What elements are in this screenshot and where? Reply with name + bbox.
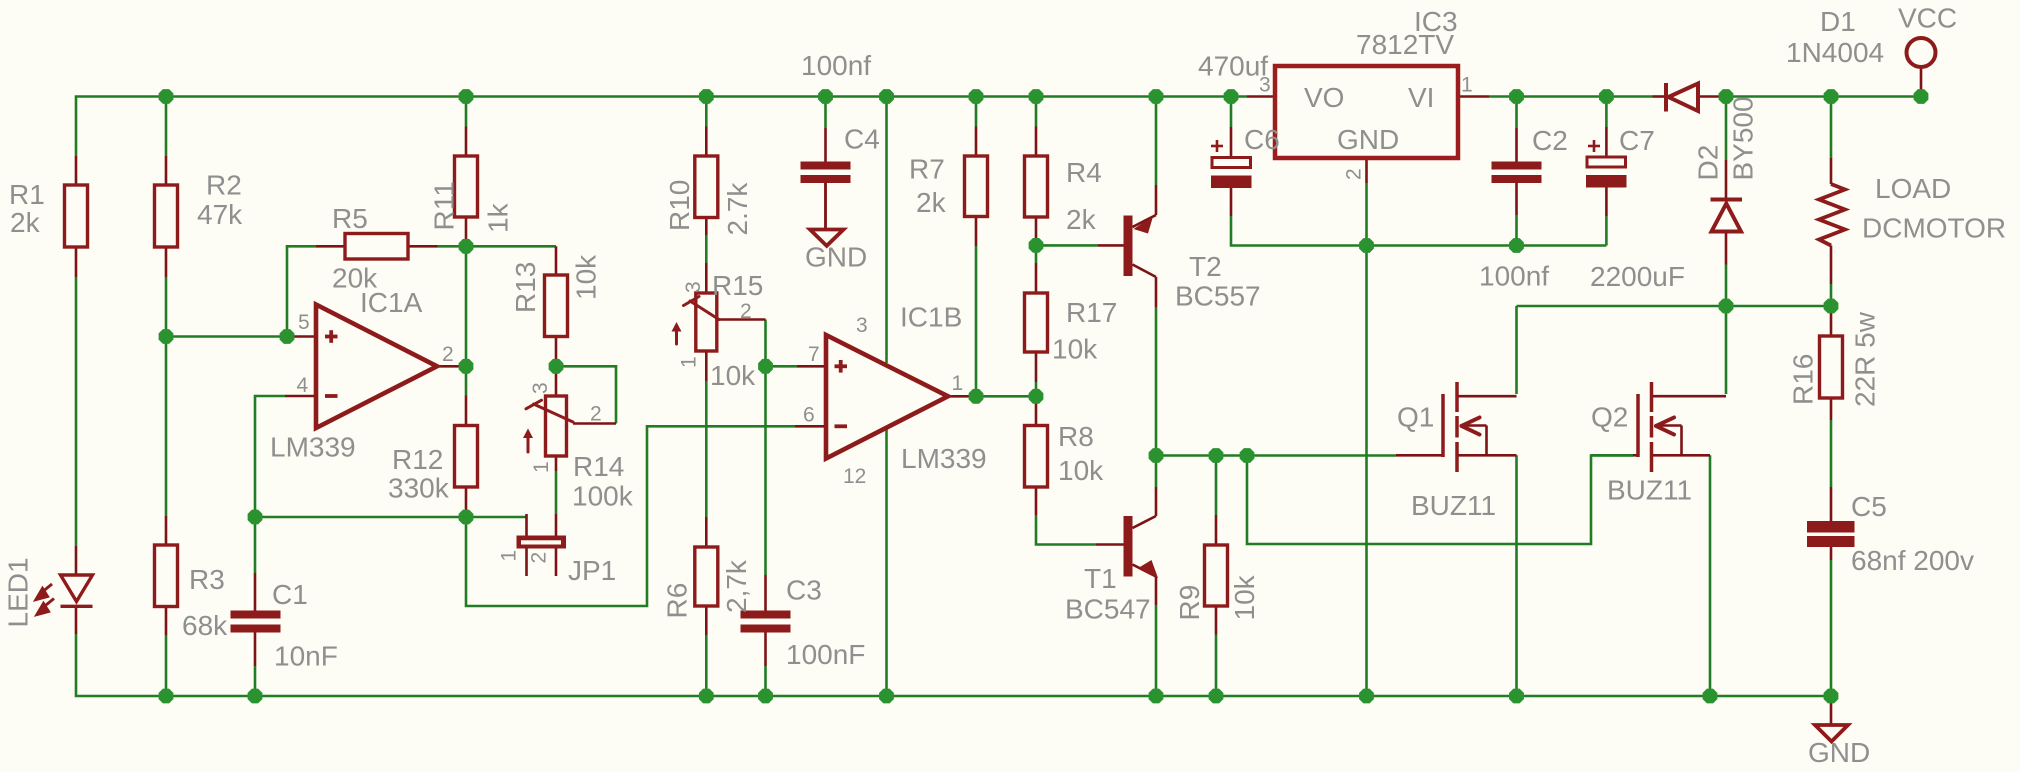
svg-text:68k: 68k bbox=[182, 610, 228, 641]
polarized capacitor C6 bbox=[1211, 140, 1252, 188]
gnd symbol C4 bbox=[810, 230, 844, 246]
pin Q1 gate bbox=[1396, 454, 1443, 457]
resistor R17 bbox=[1025, 293, 1048, 352]
wire R2 to R3 column bbox=[165, 277, 168, 516]
junction top rail x C7 bbox=[1599, 89, 1614, 104]
pin C1 bottom bbox=[254, 633, 257, 667]
svg-text:10k: 10k bbox=[710, 360, 756, 391]
svg-text:C5: C5 bbox=[1851, 491, 1887, 522]
pin R16 top bbox=[1830, 306, 1833, 336]
pin C2 top bbox=[1515, 128, 1518, 162]
pin C6 bottom bbox=[1230, 188, 1233, 216]
svg-text:1: 1 bbox=[678, 356, 701, 368]
wire IC3 gnd pin down bbox=[1365, 183, 1368, 696]
resistor R13 bbox=[545, 275, 568, 337]
pin R9 top bbox=[1215, 515, 1218, 545]
svg-text:LM339: LM339 bbox=[270, 432, 356, 463]
wire T2 collector down bbox=[1155, 307, 1158, 456]
wire drain row bbox=[1517, 305, 1832, 308]
wire opamp pin4 loop bbox=[255, 396, 285, 517]
resistor R3 bbox=[155, 545, 178, 607]
resistor R12 bbox=[455, 426, 478, 488]
wire R15 pin1 to R6 bbox=[705, 381, 708, 517]
resistor R7 bbox=[965, 156, 988, 217]
svg-text:C1: C1 bbox=[272, 579, 308, 610]
svg-text:T2: T2 bbox=[1189, 251, 1222, 282]
svg-text:3: 3 bbox=[856, 314, 868, 337]
pin R14 wiper stub bbox=[573, 422, 616, 425]
junction node IC1A out / R12 bbox=[459, 359, 474, 374]
svg-text:T1: T1 bbox=[1084, 563, 1117, 594]
junction node IC1B out / R7 bbox=[969, 389, 984, 404]
wire R11 bottom to R12 bbox=[465, 246, 468, 395]
pin T1 collector bbox=[1155, 487, 1158, 516]
resistor R11 bbox=[455, 156, 478, 217]
op-amp IC1A bbox=[316, 305, 437, 429]
pin R2 bottom bbox=[165, 247, 168, 277]
wire C6 top bbox=[1230, 97, 1233, 128]
svg-text:C2: C2 bbox=[1532, 125, 1568, 156]
junction node C1 / IC1A- bbox=[248, 510, 263, 525]
svg-text:R5: R5 bbox=[332, 203, 368, 234]
vcc symbol bbox=[1907, 38, 1936, 67]
junction bottom rail x Q1 source bbox=[1509, 689, 1524, 704]
svg-text:R12: R12 bbox=[392, 444, 443, 475]
pin C7 top bbox=[1605, 127, 1608, 157]
resistor R10 bbox=[695, 156, 718, 218]
svg-text:2k: 2k bbox=[1066, 204, 1097, 235]
LED LED1 bbox=[61, 575, 93, 606]
svg-text:10k: 10k bbox=[1229, 574, 1260, 620]
pin R17 bottom bbox=[1035, 352, 1038, 382]
svg-text:Q2: Q2 bbox=[1591, 402, 1628, 433]
svg-text:GND: GND bbox=[805, 242, 867, 273]
wire R7 top bbox=[975, 97, 978, 127]
wire C2 bottom bbox=[1515, 215, 1518, 246]
capacitor C2 bbox=[1492, 162, 1542, 184]
wire R2 column top bbox=[165, 97, 168, 157]
wire feedback down right to IC1B pin6 bbox=[466, 426, 795, 606]
wire Q2 drain up bbox=[1725, 308, 1728, 394]
pin R4 bottom bbox=[1035, 217, 1038, 245]
trimmer R14 wiper bbox=[526, 400, 573, 452]
pin R17 top bbox=[1035, 263, 1038, 293]
junction node T2/T1 collectors / gate net bbox=[1149, 448, 1164, 463]
pin D1 right bbox=[1698, 95, 1726, 98]
junction node R17/R8/IC1B out bbox=[1029, 389, 1044, 404]
svg-text:100nF: 100nF bbox=[786, 639, 865, 670]
svg-text:VCC: VCC bbox=[1898, 3, 1957, 34]
svg-text:2: 2 bbox=[1343, 168, 1366, 180]
junction top rail x C4 bbox=[818, 89, 833, 104]
svg-text:12: 12 bbox=[843, 465, 866, 488]
svg-text:R1: R1 bbox=[9, 179, 45, 210]
trimmer R15 wiper bbox=[677, 297, 720, 345]
svg-text:R9: R9 bbox=[1174, 585, 1205, 621]
pin LED1 bottom bbox=[75, 607, 78, 635]
wire R3 bottom bbox=[165, 635, 168, 696]
wire C5 bottom bbox=[1830, 560, 1833, 696]
pin T1 emitter bbox=[1155, 577, 1158, 606]
svg-text:C7: C7 bbox=[1619, 125, 1655, 156]
svg-text:IC1B: IC1B bbox=[900, 302, 962, 333]
svg-text:470uf: 470uf bbox=[1198, 51, 1268, 82]
pin JP1 1 upper bbox=[525, 514, 528, 536]
junction top rail x R4 bbox=[1029, 89, 1044, 104]
svg-text:3: 3 bbox=[682, 281, 705, 293]
svg-text:6: 6 bbox=[803, 404, 815, 427]
junction bottom rail x R6 bbox=[699, 689, 714, 704]
pin LOAD top bbox=[1830, 158, 1833, 184]
svg-text:BUZ11: BUZ11 bbox=[1411, 490, 1496, 521]
svg-text:1: 1 bbox=[530, 461, 553, 473]
junction node IC1A+ / R5 bbox=[280, 329, 295, 344]
mosfet Q2 BUZ11 bbox=[1638, 382, 1652, 472]
svg-text:DCMOTOR: DCMOTOR bbox=[1862, 213, 2006, 244]
junction top rail x C2 bbox=[1509, 89, 1524, 104]
pin T2 base bbox=[1098, 244, 1124, 247]
svg-text:2: 2 bbox=[590, 403, 602, 426]
pin D2 top bbox=[1725, 160, 1728, 200]
resistor R1 bbox=[65, 185, 88, 247]
svg-text:2200uF: 2200uF bbox=[1590, 261, 1685, 292]
pin IC1B output 1 bbox=[948, 395, 976, 398]
wire Q2 gate stub green bbox=[1591, 454, 1633, 457]
junction gate net branch to Q2 bbox=[1240, 448, 1255, 463]
svg-text:2: 2 bbox=[442, 343, 454, 366]
pin R14 bottom bbox=[555, 456, 558, 471]
polarized capacitor C7 bbox=[1586, 140, 1627, 188]
wire D2 bottom bbox=[1725, 265, 1728, 307]
load resistor zigzag bbox=[1819, 184, 1845, 246]
pin R5 right bbox=[408, 245, 438, 248]
transistor T1 BC547 bbox=[1124, 516, 1159, 578]
junction gnd row x IC3 GND bbox=[1359, 238, 1374, 253]
svg-text:1: 1 bbox=[498, 550, 521, 562]
capacitor C1 bbox=[231, 611, 281, 633]
svg-text:2k: 2k bbox=[916, 187, 947, 218]
svg-text:R10: R10 bbox=[664, 180, 695, 231]
svg-text:7: 7 bbox=[808, 343, 820, 366]
pin C2 bottom bbox=[1515, 183, 1518, 215]
wire top rail left segment bbox=[76, 97, 1247, 157]
wire LOAD top bbox=[1830, 97, 1833, 159]
junction top rail x C6 bbox=[1224, 89, 1239, 104]
svg-text:BY500: BY500 bbox=[1728, 96, 1759, 180]
wire R14 wiper loop bbox=[556, 366, 616, 423]
pin C5 top bbox=[1830, 487, 1833, 521]
resistor R4 bbox=[1025, 156, 1048, 217]
svg-text:GND: GND bbox=[1808, 737, 1870, 768]
wire top rail after IC3 bbox=[1489, 95, 1653, 98]
junction gnd row x C2 bbox=[1509, 238, 1524, 253]
svg-text:JP1: JP1 bbox=[568, 555, 616, 586]
wire top rail after D1 bbox=[1726, 95, 1921, 98]
wire R16 to C5 bbox=[1830, 420, 1833, 487]
pin T2 emitter bbox=[1155, 185, 1158, 215]
pin R15 bottom bbox=[705, 351, 708, 381]
pin R7 bottom bbox=[975, 217, 978, 247]
junction bottom rail x C3 bbox=[758, 689, 773, 704]
wire IC1B output to R8 junction bbox=[976, 395, 1036, 398]
junction top rail x D2 bbox=[1719, 89, 1734, 104]
wire bottom rail bbox=[76, 634, 1831, 696]
svg-text:R2: R2 bbox=[206, 170, 242, 201]
wire T2 base bbox=[1036, 244, 1098, 247]
resistor R8 bbox=[1025, 426, 1048, 488]
capacitor C3 bbox=[741, 611, 791, 633]
svg-text:VI: VI bbox=[1408, 82, 1434, 113]
pin R11 top bbox=[465, 127, 468, 157]
wire R14 bottom to JP1 pin2 bbox=[555, 471, 558, 514]
pin R6 bottom bbox=[705, 606, 708, 635]
svg-text:R7: R7 bbox=[909, 154, 945, 185]
resistor R9 bbox=[1205, 545, 1228, 606]
junction bottom rail x T1 emitter bbox=[1149, 689, 1164, 704]
svg-text:2.7k: 2.7k bbox=[722, 182, 753, 236]
wire LOAD bottom to row bbox=[1830, 284, 1833, 306]
pin R10 bottom bbox=[705, 218, 708, 236]
svg-text:1: 1 bbox=[1461, 74, 1473, 97]
wire C1 top bbox=[254, 517, 257, 573]
pin JP1 1 lower bbox=[525, 549, 528, 577]
svg-text:D2: D2 bbox=[1693, 145, 1724, 181]
junction top rail x R2 bbox=[159, 89, 174, 104]
wire R1 column lower bbox=[75, 277, 78, 546]
pin Q2 gate bbox=[1633, 454, 1638, 457]
pin C3 bottom bbox=[764, 633, 767, 667]
mosfet Q1 BUZ11 bbox=[1443, 382, 1457, 472]
junction node R15 wiper / C3 / IC1B+ bbox=[758, 359, 773, 374]
wire Q1 drain up bbox=[1515, 306, 1518, 394]
pin R8 bottom bbox=[1035, 487, 1038, 515]
svg-text:330k: 330k bbox=[388, 473, 450, 504]
svg-text:R13: R13 bbox=[510, 262, 541, 313]
wire D2 top bbox=[1725, 97, 1728, 161]
pin IC1A output 2 bbox=[437, 365, 466, 368]
wire R5 left loop bbox=[287, 246, 316, 336]
pin R15 top bbox=[705, 263, 708, 293]
wire R11 top bbox=[465, 97, 468, 127]
pin C4 GND stub bbox=[824, 183, 827, 230]
svg-text:68nf 200v: 68nf 200v bbox=[1851, 545, 1974, 576]
svg-text:IC1A: IC1A bbox=[360, 287, 423, 318]
wire C2 top bbox=[1515, 97, 1518, 129]
pin R13 top bbox=[555, 246, 558, 275]
svg-text:47k: 47k bbox=[197, 199, 243, 230]
svg-text:1k: 1k bbox=[483, 202, 514, 233]
pin IC3 3 bbox=[1247, 95, 1275, 98]
svg-text:R6: R6 bbox=[662, 583, 693, 619]
wire C7 gnd corner bbox=[1605, 216, 1608, 246]
junction drain row x R16/LOAD bbox=[1824, 299, 1839, 314]
pin R16 bottom bbox=[1830, 398, 1833, 420]
svg-text:5: 5 bbox=[298, 311, 310, 334]
wire T1 collector up bbox=[1155, 456, 1158, 488]
svg-text:Q1: Q1 bbox=[1397, 402, 1434, 433]
wire gate row bbox=[1156, 454, 1396, 457]
pin R8 top bbox=[1035, 396, 1038, 425]
capacitor C4 bbox=[801, 162, 851, 184]
wire R10 top bbox=[705, 97, 708, 127]
LED1 arrows bbox=[36, 584, 54, 615]
transistor T2 BC557 bbox=[1124, 215, 1157, 277]
junction drain row x D2/Q2 drain bbox=[1719, 299, 1734, 314]
pin R1 bottom bbox=[75, 247, 78, 277]
junction node R4/R17/T2 base bbox=[1029, 238, 1044, 253]
svg-text:GND: GND bbox=[1337, 124, 1399, 155]
svg-text:LED1: LED1 bbox=[3, 557, 34, 627]
pin JP1 2 lower bbox=[555, 549, 558, 577]
svg-text:100nf: 100nf bbox=[801, 50, 871, 81]
resistor R5 bbox=[345, 234, 408, 260]
wire R5 row to R13 bbox=[466, 245, 556, 248]
wire R4 junction to R17 bbox=[1035, 245, 1038, 263]
wire R9 top bbox=[1215, 456, 1218, 516]
junction node R13/R14/wiper bbox=[549, 359, 564, 374]
junction bottom rail x GND symbol bbox=[1824, 689, 1839, 704]
pin VCC stub bbox=[1920, 67, 1923, 97]
pin IC3 1 bbox=[1458, 95, 1489, 98]
junction bottom rail x C1 bbox=[248, 689, 263, 704]
pin LED1 top bbox=[75, 546, 78, 575]
svg-text:LOAD: LOAD bbox=[1875, 173, 1951, 204]
svg-text:22R 5w: 22R 5w bbox=[1850, 311, 1881, 407]
svg-text:LM339: LM339 bbox=[901, 443, 987, 474]
junction top rail x LOAD bbox=[1824, 89, 1839, 104]
junction top rail x R11 bbox=[459, 89, 474, 104]
pin R12 bottom bbox=[465, 487, 468, 517]
pin T1 base bbox=[1096, 543, 1124, 546]
pin R9 bottom bbox=[1215, 606, 1218, 635]
potentiometer R14 body bbox=[546, 396, 567, 456]
diode D1 bbox=[1666, 83, 1698, 112]
junction gate net x R9 bbox=[1209, 448, 1224, 463]
svg-text:1: 1 bbox=[952, 372, 964, 395]
wire R9 bottom bbox=[1215, 635, 1218, 697]
svg-text:C3: C3 bbox=[786, 575, 822, 606]
resistor R16 bbox=[1820, 336, 1843, 398]
wire JP1 pin1 bbox=[466, 516, 526, 519]
junction top rail x R10 bbox=[699, 89, 714, 104]
svg-text:BUZ11: BUZ11 bbox=[1607, 475, 1692, 506]
pin R12 top bbox=[465, 396, 468, 426]
pin C3 top bbox=[764, 575, 767, 611]
wire wiper junction to IC1B pin7 bbox=[766, 365, 798, 368]
pin C7 bottom bbox=[1605, 188, 1608, 217]
svg-text:R11: R11 bbox=[429, 181, 460, 230]
wire R7 bottom to IC1B output bbox=[975, 246, 978, 396]
wire T1 emitter bottom bbox=[1155, 605, 1158, 696]
pin C4 top bbox=[824, 128, 827, 162]
potentiometer R15 body bbox=[696, 293, 717, 351]
svg-text:10k: 10k bbox=[1052, 334, 1098, 365]
wire C3 top bbox=[764, 366, 767, 575]
wire R10 to R15 gap bbox=[705, 235, 708, 263]
wire R15 wiper to junction bbox=[764, 320, 767, 367]
pin R7 top bbox=[975, 127, 978, 157]
wire T2 emitter top bbox=[1155, 97, 1158, 186]
svg-text:R3: R3 bbox=[189, 564, 225, 595]
junction bottom rail x LM339 pin12 net bbox=[879, 689, 894, 704]
svg-text:R14: R14 bbox=[573, 451, 624, 482]
svg-text:2: 2 bbox=[528, 552, 551, 564]
svg-text:10nF: 10nF bbox=[274, 641, 338, 672]
pin C1 top bbox=[254, 573, 257, 611]
junction top rail x T2 emitter bbox=[1149, 89, 1164, 104]
pin R14 top bbox=[555, 366, 558, 396]
wire C4 top bbox=[824, 97, 827, 129]
svg-text:2,7k: 2,7k bbox=[721, 559, 752, 613]
pin IC1B minus 6 bbox=[795, 425, 826, 428]
svg-text:10k: 10k bbox=[1058, 455, 1104, 486]
svg-text:2k: 2k bbox=[10, 207, 41, 238]
gnd symbol bottom bbox=[1815, 725, 1848, 742]
pin GND symbol stub bbox=[1830, 696, 1833, 725]
junction node R2/R3 to IC1A+ bbox=[159, 329, 174, 344]
capacitor C5 bbox=[1807, 521, 1855, 547]
svg-text:R4: R4 bbox=[1066, 157, 1102, 188]
wire C1 bottom bbox=[254, 666, 257, 696]
wire C3 bottom bbox=[764, 666, 767, 696]
pin T2 collector bbox=[1155, 277, 1158, 307]
pin D2 bottom bbox=[1725, 232, 1728, 265]
svg-text:10k: 10k bbox=[571, 254, 602, 300]
svg-text:BC557: BC557 bbox=[1175, 281, 1261, 312]
wire LM339 power pin3 column bbox=[885, 97, 888, 364]
junction top rail x VCC bbox=[1914, 89, 1929, 104]
wire R8 bottom to T1 base bbox=[1036, 515, 1096, 545]
svg-text:4: 4 bbox=[297, 374, 309, 397]
junction top rail x R7 bbox=[969, 89, 984, 104]
svg-text:R8: R8 bbox=[1058, 421, 1094, 452]
pin IC1A plus input 5 bbox=[287, 335, 316, 338]
pin IC3 2 bbox=[1365, 158, 1368, 183]
svg-text:VO: VO bbox=[1304, 82, 1344, 113]
pin R10 top bbox=[705, 127, 708, 157]
svg-text:D1: D1 bbox=[1820, 6, 1856, 37]
svg-text:100k: 100k bbox=[572, 481, 634, 512]
svg-text:3: 3 bbox=[529, 382, 552, 394]
pin IC1B plus 7 bbox=[797, 365, 826, 368]
junction top rail x LM339 pin3 net bbox=[879, 89, 894, 104]
svg-text:7812TV: 7812TV bbox=[1356, 29, 1454, 60]
pin R3 bottom bbox=[165, 607, 168, 636]
regulator IC3 box bbox=[1275, 66, 1458, 158]
pin IC1A minus input 4 bbox=[285, 395, 316, 398]
pin C6 top bbox=[1230, 127, 1233, 158]
wire node to opamp plus bbox=[166, 335, 287, 338]
junction bottom rail x R3 bbox=[159, 689, 174, 704]
svg-text:R16: R16 bbox=[1788, 354, 1819, 405]
junction node R5/R11/R13 bbox=[459, 239, 474, 254]
wire R17 bottom bbox=[1035, 382, 1038, 396]
wire gate branch to Q2 bbox=[1247, 456, 1633, 545]
svg-text:C4: C4 bbox=[844, 124, 880, 155]
wire C6 bottom to gnd row bbox=[1231, 216, 1606, 246]
wire C1 junction to R12 junction bbox=[255, 516, 466, 519]
resistor R2 bbox=[155, 185, 178, 247]
pin C5 bottom bbox=[1830, 547, 1833, 560]
pin R15 wiper stub bbox=[719, 318, 766, 321]
junction bottom rail x IC3 GND net bbox=[1359, 689, 1374, 704]
diode D2 bbox=[1711, 200, 1743, 232]
svg-text:3: 3 bbox=[1259, 74, 1271, 97]
pin R2 top bbox=[165, 156, 168, 185]
pin D1 left bbox=[1653, 95, 1667, 98]
op-amp IC1B bbox=[826, 335, 948, 459]
wire R5 right to R11 junction bbox=[438, 245, 467, 248]
